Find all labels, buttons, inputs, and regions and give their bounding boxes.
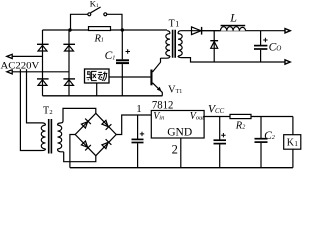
capacitor C3 (input filter) xyxy=(132,115,144,168)
svg-text:K1: K1 xyxy=(90,0,99,9)
svg-text:T2: T2 xyxy=(43,106,53,117)
bridge rectifier right column wire xyxy=(68,30,70,96)
diode B2-TL xyxy=(81,119,91,129)
AC arrow bottom xyxy=(7,70,12,74)
regulator U1 7812 xyxy=(151,111,204,139)
svg-text:C2: C2 xyxy=(264,130,275,142)
node B (junction R1 right / C1 top) xyxy=(121,28,124,31)
resistor R1 xyxy=(89,27,111,31)
diode D-d (bridge1 bottom-right) xyxy=(63,79,75,86)
svg-text:L: L xyxy=(229,10,237,24)
transformer T1 xyxy=(161,30,286,62)
T2 core xyxy=(49,119,52,154)
diode D2 (freewheel) xyxy=(210,31,218,62)
wire AC drop right xyxy=(27,61,43,123)
node A (junction top of bridge right column) xyxy=(68,28,71,31)
svg-text:VCC: VCC xyxy=(208,104,225,116)
wire bridge2 right corner to 7812 input xyxy=(116,115,151,135)
wire Vcc rail xyxy=(204,116,293,118)
output arrow top xyxy=(285,29,290,33)
T2 primary winding xyxy=(42,123,46,125)
svg-text:CO: CO xyxy=(269,41,282,53)
resistor R2 xyxy=(230,114,251,118)
diode B2-BR xyxy=(101,139,111,149)
transformer T2 xyxy=(41,119,63,154)
label AC220V xyxy=(0,61,41,71)
capacitor C2 xyxy=(255,117,268,168)
ground rail xyxy=(70,167,293,169)
plus sign C4 xyxy=(221,133,225,137)
wire AC drop left xyxy=(20,61,42,150)
switch K1 xyxy=(71,7,123,30)
pin 2 wire (GND) xyxy=(180,138,182,168)
svg-text:T1: T1 xyxy=(169,18,180,29)
inductor L xyxy=(221,25,246,31)
bridge2 diamond xyxy=(75,113,116,155)
svg-text:R1: R1 xyxy=(94,33,104,44)
svg-text:2: 2 xyxy=(172,142,178,156)
T2 secondary winding xyxy=(58,125,62,149)
diode B2-BL xyxy=(81,140,91,150)
svg-text:7812: 7812 xyxy=(152,100,174,112)
wire bottom rail of bridge1 xyxy=(43,95,163,97)
bridge rectifier left column wire xyxy=(42,30,44,96)
svg-text:AC220V: AC220V xyxy=(1,61,40,71)
transistor VT1 xyxy=(150,58,162,96)
capacitor C4 (Vcc filter) xyxy=(214,117,227,168)
plus sign C1 xyxy=(126,49,131,54)
svg-text:R2: R2 xyxy=(235,120,245,131)
wire T2 secondary top to bridge2 xyxy=(63,108,96,121)
wire top rail xyxy=(43,29,168,31)
wire AC line top xyxy=(7,55,43,57)
wire AC line bottom xyxy=(7,71,69,73)
diode D-c (bridge1 top-right) xyxy=(63,44,75,51)
wire T2 secondary bottom to bridge2 xyxy=(64,152,96,162)
diode D-a (bridge1 top-left) xyxy=(37,44,49,51)
T1 secondary winding xyxy=(178,31,181,34)
T1 core xyxy=(173,30,176,58)
wire drive box to base xyxy=(109,76,150,78)
svg-text:K1: K1 xyxy=(287,138,299,149)
capacitor C1 xyxy=(116,30,129,96)
diode B2-TR xyxy=(101,119,111,129)
wire bridge2 left corner to ground rail xyxy=(70,135,75,168)
diode D1 (output series) xyxy=(192,27,286,35)
svg-text:1: 1 xyxy=(136,103,142,115)
wire drive box to ground rail xyxy=(96,83,98,96)
svg-text:VT1: VT1 xyxy=(168,85,182,96)
svg-text:GND: GND xyxy=(167,125,192,139)
plus sign Co xyxy=(263,38,267,42)
output arrow bottom xyxy=(285,60,290,64)
AC arrow top xyxy=(7,54,12,58)
T1 primary winding xyxy=(167,31,170,34)
svg-text:C1: C1 xyxy=(105,50,116,62)
diode D-b (bridge1 bottom-left) xyxy=(37,79,49,86)
drive box (qu dong) xyxy=(85,69,110,83)
capacitor Co xyxy=(254,31,267,62)
plus sign C3 xyxy=(140,132,144,136)
relay K1 xyxy=(284,117,301,168)
